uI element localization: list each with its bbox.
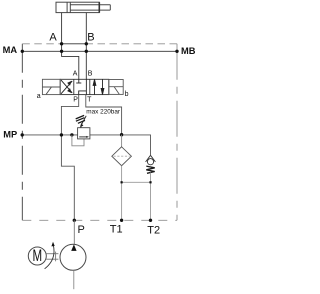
rotation arrow (45, 242, 55, 269)
manifold boundary dashed left edge (21, 44, 23, 221)
svg-text:A: A (73, 71, 78, 78)
svg-text:MA: MA (3, 45, 18, 55)
wire cylinder port A down (61, 13, 63, 52)
wire A jog to valve port A (62, 51, 79, 79)
wire valve T to tank line (86, 95, 122, 135)
node B-MB junction (85, 50, 88, 53)
wire T1 lower (121, 166, 123, 222)
node port P dot (73, 219, 76, 222)
node B dot (85, 42, 88, 45)
wire T1 line through filter (121, 135, 123, 147)
node port T2 dot (149, 219, 152, 222)
relief valve RV1 adjust arrow (80, 116, 86, 128)
solenoid b (109, 80, 123, 95)
wire MA to MB gauge line (22, 50, 177, 52)
node MA dot (21, 50, 24, 53)
svg-text:MP: MP (3, 129, 17, 139)
wire solid segment A-B on boundary (62, 43, 87, 45)
relief valve RV1 spring (76, 115, 85, 123)
wire tank connector (122, 181, 151, 183)
motor M1 (28, 247, 46, 266)
svg-text:M: M (32, 247, 42, 266)
svg-text:P: P (78, 224, 85, 236)
relief valve RV1 pilot loop (72, 135, 84, 146)
wire P to pump (73, 220, 75, 244)
pump PU1 (60, 244, 86, 270)
svg-text:P: P (73, 96, 78, 103)
svg-text:T2: T2 (147, 225, 160, 237)
wire valve P to P port (61, 95, 78, 221)
svg-text:max 220bar: max 220bar (86, 108, 121, 115)
node A dot (60, 42, 63, 45)
manifold boundary dashed bottom edge (22, 219, 177, 221)
wire relief output line (90, 135, 151, 155)
svg-text:B: B (88, 71, 93, 78)
wire MP gauge line (22, 134, 77, 136)
node pilot junction (70, 133, 73, 136)
wire T2 lower (150, 173, 152, 223)
svg-text:A: A (49, 32, 57, 44)
wire cylinder port B down (85, 13, 87, 80)
relief valve RV1 body (78, 128, 90, 139)
check valve CV1 spring (146, 166, 154, 173)
valve V1 centre position (76, 79, 86, 94)
svg-text:a: a (37, 93, 41, 100)
node port T1 dot (120, 219, 123, 222)
node tank connector left (121, 181, 123, 183)
manifold boundary dashed right edge (176, 44, 178, 221)
svg-text:b: b (125, 91, 129, 98)
node MB dot (175, 50, 178, 53)
svg-text:B: B (87, 32, 94, 44)
wire pump suction (73, 270, 75, 289)
node P-MP junction (60, 133, 63, 136)
svg-text:MB: MB (181, 46, 196, 56)
node MP dot (21, 133, 24, 136)
valve V1 position b parallel arrows (93, 79, 104, 94)
svg-text:T1: T1 (110, 224, 123, 236)
node T junction (120, 133, 123, 136)
filter F1 (112, 147, 132, 166)
node tank connector right (149, 181, 151, 183)
node A-MA junction (60, 50, 63, 53)
svg-text:T: T (87, 96, 92, 103)
valve V1 body (60, 79, 109, 94)
coupling shaft (46, 252, 58, 262)
manifold boundary dashed top edge (22, 43, 177, 45)
cylinder C1 (56, 2, 110, 12)
valve V1 position a crossed arrows (61, 80, 72, 94)
check valve CV1 (146, 155, 156, 164)
solenoid a (42, 79, 60, 94)
